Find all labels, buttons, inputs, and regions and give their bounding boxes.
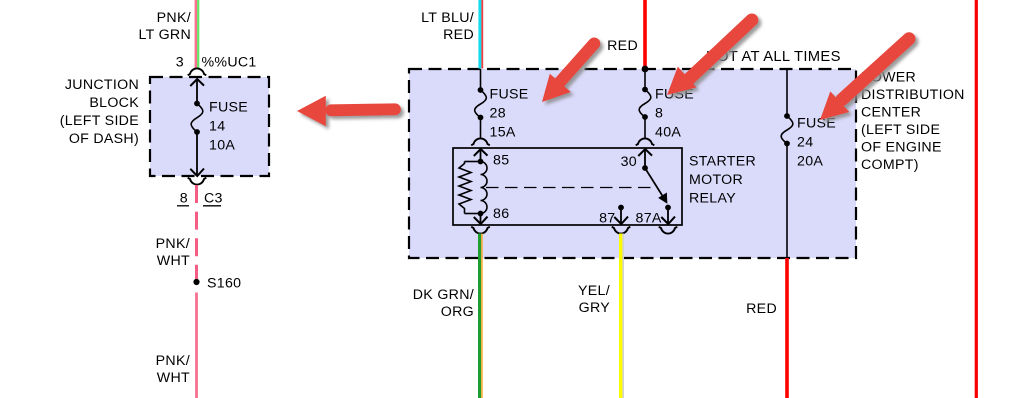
svg-text:8: 8 bbox=[180, 191, 188, 207]
svg-text:BLOCK: BLOCK bbox=[89, 95, 139, 111]
svg-text:WHT: WHT bbox=[157, 370, 190, 386]
svg-text:DISTRIBUTION: DISTRIBUTION bbox=[861, 87, 965, 103]
svg-text:30: 30 bbox=[621, 154, 637, 170]
pin 8 bbox=[177, 191, 189, 207]
fuse 28 lower lead bbox=[478, 115, 484, 139]
relay pin 87A (down arrow) bbox=[636, 205, 676, 227]
svg-text:STARTER: STARTER bbox=[689, 154, 756, 170]
callout arrow 1 (points left to junction block) bbox=[297, 96, 395, 127]
connector arc below relay pin 86 bbox=[471, 227, 490, 234]
value label FUSE 24 20A bbox=[797, 116, 836, 170]
svg-text:85: 85 bbox=[493, 153, 509, 169]
svg-text:FUSE: FUSE bbox=[209, 100, 248, 116]
connector arc (female, top of junction block) bbox=[188, 68, 207, 75]
label JUNCTION BLOCK (LEFT SIDE OF DASH) bbox=[60, 77, 139, 147]
svg-text:RELAY: RELAY bbox=[689, 191, 736, 207]
svg-text:24: 24 bbox=[797, 135, 813, 151]
callout arrow 3 (points to FUSE 8) bbox=[667, 20, 752, 95]
svg-text:15A: 15A bbox=[490, 125, 516, 141]
svg-text:GRY: GRY bbox=[579, 300, 611, 316]
connector C3 bbox=[203, 191, 223, 207]
svg-text:LT BLU/: LT BLU/ bbox=[421, 10, 474, 26]
connector arc (bottom of junction block) bbox=[188, 178, 207, 185]
power distribution center box bbox=[409, 69, 856, 258]
wire DK GRN/ORG bbox=[478, 234, 483, 398]
svg-text:C3: C3 bbox=[204, 191, 223, 207]
fuse F24 element bbox=[781, 116, 793, 144]
connector arc above relay pin 30 bbox=[636, 138, 655, 145]
svg-text:WHT: WHT bbox=[157, 253, 190, 269]
connector arc below relay pin 87A bbox=[659, 227, 678, 234]
svg-text:8: 8 bbox=[655, 106, 663, 122]
svg-text:RED: RED bbox=[607, 38, 638, 54]
svg-text:3: 3 bbox=[176, 55, 184, 71]
label DK GRN/ORG bbox=[413, 287, 474, 320]
mechanical linkage (dashed) bbox=[486, 187, 656, 189]
wire PNK/LT GRN (top left) bbox=[195, 0, 200, 69]
label STARTER MOTOR RELAY bbox=[689, 154, 756, 207]
svg-text:(LEFT SIDE: (LEFT SIDE bbox=[861, 122, 940, 138]
svg-text:FUSE: FUSE bbox=[797, 116, 836, 132]
value label FUSE 14 10A bbox=[209, 100, 248, 154]
relay pin 30 (up arrow) bbox=[621, 149, 652, 171]
svg-text:LT GRN: LT GRN bbox=[138, 27, 191, 43]
splice node S160 bbox=[193, 276, 241, 292]
fuse F28 element bbox=[475, 90, 487, 118]
svg-text:FUSE: FUSE bbox=[490, 87, 529, 103]
relay pin 87 (down arrow) bbox=[599, 205, 628, 227]
svg-text:JUNCTION: JUNCTION bbox=[65, 77, 139, 93]
svg-text:CENTER: CENTER bbox=[861, 105, 921, 121]
fuse 8 upper lead bbox=[642, 69, 648, 92]
junction block box bbox=[150, 77, 269, 176]
value label FUSE 28 15A bbox=[490, 87, 529, 141]
wire YEL/GRY bbox=[619, 234, 624, 398]
label PNK/WHT lower bbox=[156, 353, 190, 386]
relay switch blade 30->87A bbox=[645, 168, 667, 203]
svg-text:PNK/: PNK/ bbox=[156, 353, 190, 369]
svg-text:RED: RED bbox=[443, 27, 474, 43]
connector arc below relay pin 87 bbox=[612, 227, 631, 234]
svg-text:10A: 10A bbox=[209, 138, 235, 154]
label PNK/WHT upper bbox=[156, 236, 190, 269]
relay coil (zigzag + winding) bbox=[459, 162, 487, 214]
callout arrow 4 (points to FUSE 24) bbox=[820, 39, 909, 120]
svg-text:PNK/: PNK/ bbox=[156, 236, 190, 252]
svg-text:RED: RED bbox=[746, 301, 777, 317]
relay pin 86 (down arrow) bbox=[474, 206, 510, 224]
svg-text:40A: 40A bbox=[655, 125, 681, 141]
wire PNK/WHT (solid, lower) bbox=[195, 293, 198, 398]
callout arrow 2 (points to FUSE 28) bbox=[542, 44, 594, 102]
label PNK/LT GRN bbox=[138, 10, 191, 43]
fuse 24 lower lead bbox=[784, 141, 790, 258]
connector arc above relay pin 85 bbox=[471, 138, 490, 145]
starter motor relay box bbox=[453, 148, 682, 225]
svg-text:MOTOR: MOTOR bbox=[689, 172, 743, 188]
fuse 14 lead with up arrow bbox=[190, 79, 204, 107]
fuse 8 lower lead bbox=[642, 114, 648, 138]
label POWER DISTRIBUTION CENTER (LEFT SIDE OF ENGINE COMPT) bbox=[861, 70, 965, 174]
wire PNK/WHT (dashed) bbox=[195, 185, 198, 282]
svg-text:86: 86 bbox=[493, 206, 509, 222]
label YEL/GRY bbox=[578, 283, 610, 316]
svg-text:14: 14 bbox=[209, 119, 225, 135]
fuse 28 upper lead bbox=[478, 69, 484, 93]
svg-text:S160: S160 bbox=[207, 276, 241, 292]
fuse 24 upper lead bbox=[784, 69, 790, 119]
wire RED (top, to fuse 8) bbox=[643, 0, 647, 69]
svg-text:COMPT): COMPT) bbox=[861, 157, 919, 173]
fuse F8 element bbox=[639, 90, 651, 118]
svg-text:YEL/: YEL/ bbox=[578, 283, 610, 299]
wire RED (far right, full height) bbox=[975, 0, 978, 398]
svg-text:ORG: ORG bbox=[441, 304, 474, 320]
svg-text:%%UC1: %%UC1 bbox=[202, 55, 257, 71]
svg-text:PNK/: PNK/ bbox=[157, 10, 191, 26]
value label FUSE 8 40A bbox=[655, 87, 694, 141]
svg-text:OF ENGINE: OF ENGINE bbox=[861, 140, 942, 156]
wire LT BLU/RED (top) bbox=[478, 0, 483, 69]
svg-text:87A: 87A bbox=[636, 211, 662, 227]
svg-text:DK GRN/: DK GRN/ bbox=[413, 287, 474, 303]
svg-text:87: 87 bbox=[599, 211, 615, 227]
svg-text:OF DASH): OF DASH) bbox=[69, 131, 139, 147]
wire RED (below fuse 24) bbox=[785, 258, 789, 398]
svg-text:28: 28 bbox=[490, 106, 506, 122]
fuse F14 element bbox=[191, 104, 203, 133]
label LT BLU/RED bbox=[421, 10, 474, 43]
fuse 14 lower lead with down arrow bbox=[190, 129, 204, 176]
relay pin 85 (up arrow) bbox=[474, 149, 510, 169]
svg-text:20A: 20A bbox=[797, 154, 823, 170]
junction dot at PDC entry bbox=[642, 66, 649, 73]
svg-text:(LEFT SIDE: (LEFT SIDE bbox=[60, 113, 139, 129]
